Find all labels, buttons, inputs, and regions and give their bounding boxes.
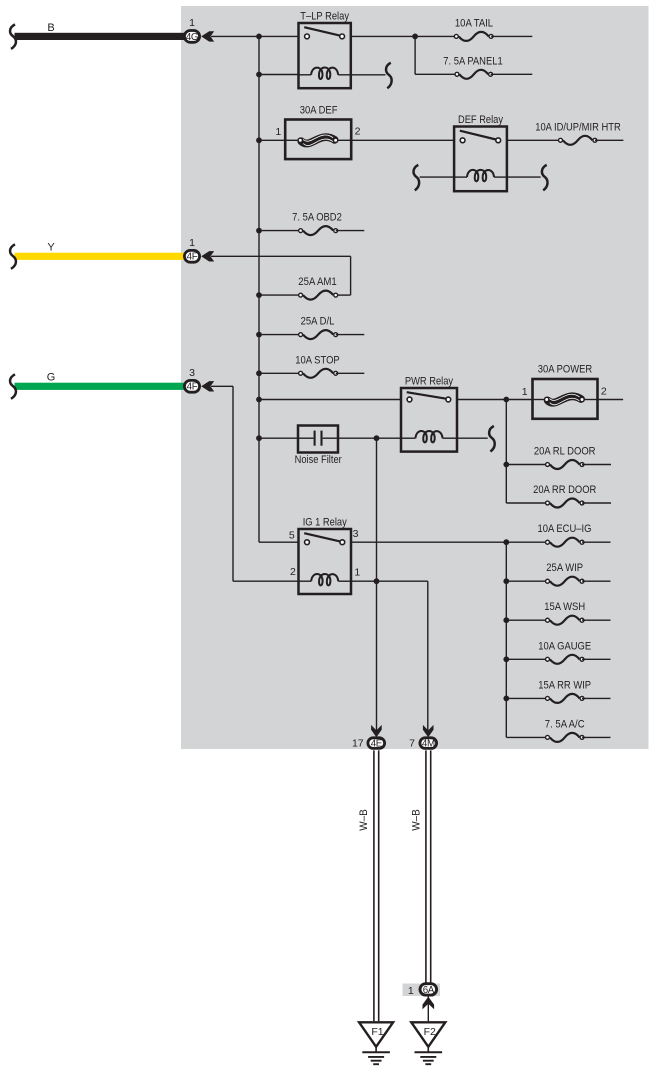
svg-text:6A: 6A — [423, 985, 435, 996]
svg-text:PWR Relay: PWR Relay — [405, 376, 453, 388]
svg-text:T–LP Relay: T–LP Relay — [300, 11, 349, 23]
svg-text:17: 17 — [352, 738, 364, 750]
svg-text:3: 3 — [353, 528, 359, 540]
svg-text:W–B: W–B — [358, 809, 370, 831]
svg-text:10A ID/UP/MIR HTR: 10A ID/UP/MIR HTR — [535, 121, 621, 133]
svg-text:1: 1 — [189, 17, 195, 29]
svg-text:2: 2 — [601, 385, 607, 397]
svg-text:25A WIP: 25A WIP — [546, 562, 583, 574]
svg-text:20A RR DOOR: 20A RR DOOR — [533, 484, 596, 496]
svg-text:4F: 4F — [187, 382, 198, 393]
svg-text:5: 5 — [289, 530, 295, 542]
svg-text:1: 1 — [408, 985, 414, 997]
svg-text:30A DEF: 30A DEF — [300, 104, 338, 116]
svg-text:W–B: W–B — [411, 809, 423, 831]
svg-text:1: 1 — [275, 126, 281, 138]
svg-text:7. 5A OBD2: 7. 5A OBD2 — [292, 212, 342, 224]
svg-text:10A GAUGE: 10A GAUGE — [538, 640, 591, 652]
svg-text:1: 1 — [522, 386, 528, 398]
svg-text:10A ECU–IG: 10A ECU–IG — [538, 523, 592, 535]
svg-text:3: 3 — [189, 367, 195, 379]
svg-text:7: 7 — [409, 738, 415, 750]
svg-text:7. 5A PANEL1: 7. 5A PANEL1 — [443, 55, 502, 67]
svg-text:25A AM1: 25A AM1 — [298, 276, 336, 288]
svg-text:25A D/L: 25A D/L — [301, 316, 335, 328]
svg-text:30A POWER: 30A POWER — [538, 363, 592, 375]
svg-text:10A TAIL: 10A TAIL — [455, 17, 493, 29]
svg-text:4M: 4M — [422, 739, 435, 750]
svg-text:DEF Relay: DEF Relay — [458, 114, 503, 126]
svg-text:10A STOP: 10A STOP — [295, 354, 339, 366]
svg-text:7. 5A A/C: 7. 5A A/C — [545, 718, 585, 730]
svg-text:15A WSH: 15A WSH — [544, 601, 585, 613]
svg-text:4F: 4F — [187, 252, 198, 263]
svg-text:F1: F1 — [371, 1026, 383, 1038]
svg-text:B: B — [47, 22, 54, 34]
svg-text:15A RR WIP: 15A RR WIP — [538, 679, 591, 691]
svg-text:1: 1 — [354, 567, 360, 579]
svg-text:Y: Y — [47, 242, 55, 254]
svg-text:20A RL DOOR: 20A RL DOOR — [534, 446, 596, 458]
svg-text:G: G — [47, 372, 56, 384]
svg-text:IG 1 Relay: IG 1 Relay — [303, 517, 347, 529]
svg-text:F2: F2 — [424, 1026, 436, 1038]
svg-text:2: 2 — [290, 566, 296, 578]
svg-text:4G: 4G — [186, 32, 198, 43]
svg-text:2: 2 — [355, 125, 361, 137]
svg-text:1: 1 — [189, 237, 195, 249]
svg-text:4E: 4E — [371, 739, 383, 750]
svg-text:Noise Filter: Noise Filter — [295, 454, 342, 466]
